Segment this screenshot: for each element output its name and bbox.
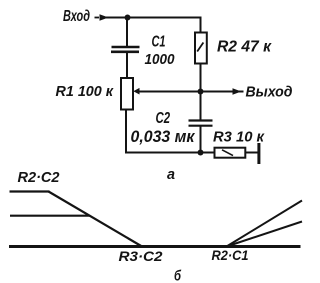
capacitor C1 xyxy=(112,46,140,49)
wire R1 to bottom xyxy=(125,110,127,153)
capacitor C2 xyxy=(189,119,213,121)
wire junction to C1 xyxy=(126,18,128,47)
wire bottom xyxy=(125,152,215,154)
svg-text:R2·C1: R2·C1 xyxy=(212,247,249,263)
input arrow xyxy=(95,17,100,19)
svg-text:R2·C2: R2·C2 xyxy=(18,169,61,186)
wire input top xyxy=(106,17,201,19)
resistor R3 (variable) xyxy=(215,148,246,158)
graph top plateau line xyxy=(10,190,50,192)
svg-text:б: б xyxy=(174,268,182,283)
svg-text:а: а xyxy=(167,166,175,183)
svg-text:R3 10 к: R3 10 к xyxy=(213,129,265,146)
wire top to R2 xyxy=(200,17,202,33)
resistor R2 xyxy=(195,33,207,64)
svg-text:С1: С1 xyxy=(152,34,166,51)
R1 wiper arrow xyxy=(133,88,139,95)
node input junction dot xyxy=(125,15,131,21)
wire C1 to R1 xyxy=(126,51,128,78)
svg-text:1000: 1000 xyxy=(145,51,176,68)
wire R2 to output junction xyxy=(200,64,202,92)
svg-text:R3·C2: R3·C2 xyxy=(119,248,163,264)
wire output junction to C2 xyxy=(200,92,202,121)
terminal bar xyxy=(257,143,260,164)
graph middle plateau line xyxy=(10,215,90,217)
wire C2 to bottom xyxy=(200,126,202,153)
svg-text:R2 47 к: R2 47 к xyxy=(217,39,272,56)
svg-text:0,033 мк: 0,033 мк xyxy=(131,128,197,146)
output arrow xyxy=(233,88,242,95)
svg-text:С2: С2 xyxy=(156,110,171,127)
node output junction dot xyxy=(198,89,204,95)
svg-text:R1 100 к: R1 100 к xyxy=(56,83,115,100)
graph rising line lower xyxy=(227,222,303,247)
svg-text:Вход: Вход xyxy=(63,8,90,25)
resistor R1 (potentiometer) xyxy=(121,78,133,110)
wire wiper to output xyxy=(139,91,244,93)
graph baseline xyxy=(9,245,301,248)
graph falling diagonal xyxy=(49,192,143,247)
node bottom junction dot xyxy=(198,150,204,156)
graph rising line upper xyxy=(227,201,303,247)
wire R3 to terminal xyxy=(245,152,258,154)
svg-text:Выход: Выход xyxy=(246,84,293,101)
